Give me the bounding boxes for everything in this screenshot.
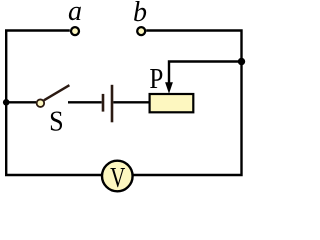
wire [6,101,36,103]
switch S blade [44,85,70,100]
svg-text:S: S [49,104,64,137]
potentiometer P body [150,94,194,112]
wire [6,31,102,176]
switch S pivot [37,99,45,107]
wire wiper-to-right [169,62,242,85]
battery negative plate [102,94,105,112]
node a terminal [71,27,79,35]
svg-text:a: a [68,0,82,27]
wire battery-to-potentiometer [113,101,150,103]
node b terminal [137,27,145,35]
wiper arrow of potentiometer P [165,82,173,94]
voltmeter V [102,161,133,192]
node junction left [3,99,10,106]
svg-text:V: V [110,163,125,194]
svg-text:b: b [133,0,147,28]
wire switch-to-battery [68,101,102,103]
battery positive plate [111,85,114,123]
svg-text:P: P [149,63,163,95]
wire [134,31,242,176]
node junction right [238,58,245,65]
